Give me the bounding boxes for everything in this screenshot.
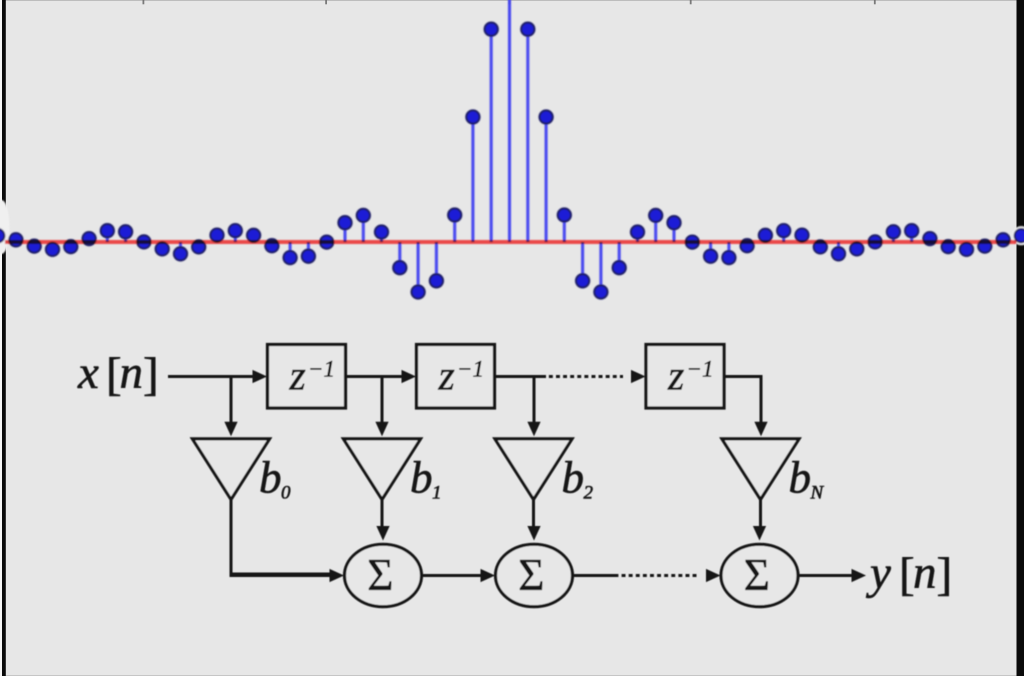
data dot n=1: [521, 23, 534, 36]
wire: b0 horizontal into summer S1: [230, 574, 332, 577]
wire: S2 output: [573, 574, 615, 577]
stem sample n=-17: [197, 242, 200, 247]
stem sample n=16: [800, 235, 803, 242]
stem sample n=-19: [161, 242, 164, 249]
data dot n=8: [649, 209, 662, 222]
stem sample n=12: [727, 242, 730, 258]
svg-text:]: ]: [937, 549, 953, 601]
svg-text:z: z: [438, 354, 455, 400]
data dot n=22: [905, 224, 918, 237]
multiplier b0 (gain triangle): [192, 439, 269, 500]
arrowhead into summer S2: [481, 569, 496, 582]
arrowhead into delay Z2: [402, 370, 417, 383]
stem sample n=8: [654, 215, 657, 242]
stem sample n=-21: [124, 232, 127, 242]
stem sample n=9: [672, 223, 675, 242]
data dot n=19: [850, 242, 863, 255]
axis tick at top x=690.7: [690, 0, 692, 4]
axis tick at top x=509.5: [509, 0, 511, 4]
data dot n=24: [942, 240, 955, 253]
svg-text:z: z: [289, 354, 306, 400]
data dot n=-22: [101, 224, 114, 237]
svg-text:−1: −1: [457, 357, 484, 382]
data dot n=23: [923, 232, 936, 245]
data dot n=-7: [375, 225, 388, 238]
stem sample n=1: [526, 29, 529, 242]
stem sample n=14: [764, 235, 767, 242]
stem sample n=-27: [14, 240, 17, 242]
arrowhead into delay Z1: [253, 370, 268, 383]
data dot n=-4: [430, 274, 443, 287]
stem sample n=-12: [289, 242, 292, 258]
data dot n=-21: [119, 225, 132, 238]
stem sample n=-14: [252, 235, 255, 242]
arrowhead into delay ZN: [631, 370, 646, 383]
stem sample n=26: [983, 242, 986, 246]
delay block Z3 (z^-1): [646, 345, 724, 409]
svg-text:n: n: [913, 547, 937, 599]
arrowhead into multiplier b1: [375, 422, 388, 437]
wire: Z1 to Z2: [346, 375, 404, 378]
data dot n=6: [613, 261, 626, 274]
data dot n=9: [667, 216, 680, 229]
data dot n=12: [722, 251, 735, 264]
data dot n=13: [741, 239, 754, 252]
data dot n=-14: [247, 229, 260, 242]
bottom edge hairline: [0, 675, 1024, 676]
wire: ZN output to corner: [724, 375, 763, 378]
wire: Z2 output: [495, 375, 547, 378]
axis tick at top x=326.1: [325, 0, 327, 4]
stem sample n=21: [892, 232, 895, 242]
stem sample n=-15: [234, 231, 237, 242]
stem sample n=17: [819, 242, 822, 247]
svg-text:1: 1: [432, 483, 442, 504]
data dot n=4: [576, 274, 589, 287]
svg-text:0: 0: [281, 483, 291, 504]
data dot n=-9: [338, 216, 351, 229]
data dot n=-11: [302, 250, 315, 263]
right edge black bar: [1017, 0, 1024, 676]
svg-text:]: ]: [143, 349, 159, 401]
data dot n=5: [594, 285, 607, 298]
stem sample n=-10: [325, 240, 328, 243]
stem sample n=18: [837, 242, 840, 254]
stem sample n=-11: [307, 242, 310, 256]
svg-text:−1: −1: [687, 357, 714, 382]
wire: S1 to S2: [422, 574, 483, 577]
data dot n=-15: [229, 224, 242, 237]
svg-text:b: b: [410, 453, 433, 503]
stem sample n=-23: [88, 239, 91, 242]
data dot n=-19: [156, 242, 169, 255]
summer S3 (sigma ellipse): [721, 544, 798, 606]
stem sample n=-26: [33, 242, 36, 246]
multiplier b2 (gain triangle): [495, 439, 572, 500]
svg-text:2: 2: [584, 483, 594, 504]
stem sample n=-18: [179, 242, 182, 254]
data dot n=15: [777, 224, 790, 237]
data dot n=-23: [83, 232, 96, 245]
stem sample n=-7: [380, 232, 383, 242]
arrowhead to output y[n]: [852, 569, 867, 582]
stem sample n=20: [874, 240, 877, 243]
axis tick at top x=143.4: [143, 0, 145, 4]
zero axis line (red): [5, 240, 1017, 244]
axis tick at top x=874.8: [874, 0, 876, 4]
arrowhead into summer: [753, 526, 766, 541]
svg-text:y: y: [866, 547, 891, 599]
data dot n=-17: [192, 240, 205, 253]
data dot n=11: [704, 250, 717, 263]
stem sample n=-2: [471, 117, 474, 242]
stem sample n=10: [691, 240, 694, 243]
arrowhead into summer S1: [330, 569, 345, 582]
wire: multiplier apex x=533.5 down to summer: [532, 500, 535, 528]
svg-text:b: b: [562, 453, 585, 503]
data dot n=27: [997, 233, 1010, 246]
svg-text:Σ: Σ: [518, 550, 544, 600]
stem sample n=19: [855, 242, 858, 249]
stem sample n=25: [965, 242, 968, 249]
data dot n=-10: [320, 236, 333, 249]
stem sample n=-1: [490, 29, 493, 242]
svg-text:b: b: [259, 453, 282, 503]
stem sample n=-20: [142, 240, 145, 243]
data dot n=7: [631, 225, 644, 238]
arrowhead into summer S3: [706, 569, 721, 582]
stem sample n=27: [1002, 240, 1005, 242]
data dot n=-26: [28, 240, 41, 253]
stem sample n=5: [599, 242, 602, 292]
svg-text:n: n: [120, 347, 144, 399]
data dot n=14: [759, 229, 772, 242]
data dot n=2: [540, 110, 553, 123]
stem sample n=-13: [270, 242, 273, 246]
dotted wire to delay ZN: [549, 375, 623, 378]
wire: down to multiplier bN: [760, 375, 763, 424]
summer S2 (sigma ellipse): [496, 544, 573, 606]
stem sample n=-4: [435, 242, 438, 281]
data dot n=17: [814, 240, 827, 253]
data dot n=-2: [466, 110, 479, 123]
svg-text:z: z: [667, 354, 684, 400]
data dot n=16: [795, 229, 808, 242]
wire: branch down to multiplier b2: [533, 377, 536, 424]
data dot n=-25: [46, 243, 59, 256]
stem sample n=4: [581, 242, 584, 281]
wire: x[n] to delay Z1: [168, 375, 255, 378]
data dot n=18: [832, 247, 845, 260]
halo behind edge dot n=28: [1012, 226, 1024, 245]
wire: b0 output down and right to summer S1: [231, 500, 331, 575]
svg-text:b: b: [789, 453, 812, 503]
data dot n=-13: [265, 239, 278, 252]
stem sample n=-5: [417, 242, 420, 292]
white notch on left bar around edge dot: [0, 200, 10, 254]
multiplier b1 (gain triangle): [343, 439, 420, 500]
data dot n=20: [869, 235, 882, 248]
data dot n=3: [558, 208, 571, 221]
left edge black bar: [2, 0, 6, 676]
data dot n=10: [686, 236, 699, 249]
stem sample n=11: [709, 242, 712, 256]
svg-text:Σ: Σ: [744, 550, 770, 600]
arrowhead into summer: [527, 526, 540, 541]
left edge white sliver: [0, 0, 2, 676]
svg-text:−1: −1: [308, 357, 335, 382]
summer S1 (sigma ellipse): [345, 544, 422, 606]
stem sample n=22: [910, 231, 913, 242]
stem sample n=-8: [362, 215, 365, 242]
stem sample n=-6: [398, 242, 401, 268]
data dot n=-24: [64, 240, 77, 253]
data dot n=28: [1015, 229, 1024, 242]
stem sample n=3: [563, 215, 566, 242]
data dot n=-12: [284, 251, 297, 264]
data dot n=-20: [137, 235, 150, 248]
stem sample n=-3: [453, 215, 456, 242]
data dot n=21: [887, 225, 900, 238]
stem sample n=2: [545, 117, 548, 242]
data dot n=-5: [412, 285, 425, 298]
stem sample n=-25: [51, 242, 54, 249]
svg-text:Σ: Σ: [367, 550, 393, 600]
stem sample n=-16: [215, 235, 218, 242]
wire: multiplier apex x=382 down to summer: [381, 500, 384, 528]
multiplier bN (gain triangle): [722, 439, 799, 500]
svg-text:x: x: [77, 347, 99, 399]
stem sample n=15: [782, 231, 785, 242]
stem sample n=0 (center, clipped at top): [508, 0, 511, 242]
stem sample n=6: [618, 242, 621, 268]
dotted wire to summer S3: [615, 574, 699, 577]
stem sample n=7: [636, 232, 639, 242]
data dot n=25: [960, 243, 973, 256]
arrowhead into multiplier bN: [754, 422, 767, 437]
arrowhead into summer: [376, 526, 389, 541]
stem sample n=23: [928, 239, 931, 242]
wire: S3 to output: [798, 574, 852, 577]
data dot n=-6: [393, 261, 406, 274]
top edge hairline: [0, 0, 1024, 1]
data dot n=-18: [174, 247, 187, 260]
arrowhead into multiplier b2: [527, 422, 540, 437]
stem sample n=28: [1020, 236, 1023, 242]
stem sample n=13: [746, 242, 749, 246]
data dot n=-16: [210, 229, 223, 242]
data dot n=-1: [485, 23, 498, 36]
data dot n=-8: [357, 209, 370, 222]
stem sample n=-9: [343, 223, 346, 242]
svg-text:N: N: [810, 483, 825, 504]
data dot n=-3: [448, 208, 461, 221]
stem sample n=24: [947, 242, 950, 247]
data dot n=-27: [9, 233, 22, 246]
arrowhead into multiplier b0: [224, 422, 237, 437]
wire: multiplier apex x=760.5 down to summer: [759, 500, 762, 528]
stem sample n=-22: [106, 231, 109, 242]
data dot n=26: [978, 240, 991, 253]
stem sample n=-24: [69, 242, 72, 247]
wire: branch down to multiplier b0: [230, 377, 233, 424]
data dot n=-28: [0, 229, 4, 242]
delay block Z1 (z^-1): [268, 345, 346, 409]
halo behind edge dot n=-28: [0, 226, 7, 245]
wire: branch down to multiplier b1: [381, 377, 384, 424]
delay block Z2 (z^-1): [417, 345, 495, 409]
